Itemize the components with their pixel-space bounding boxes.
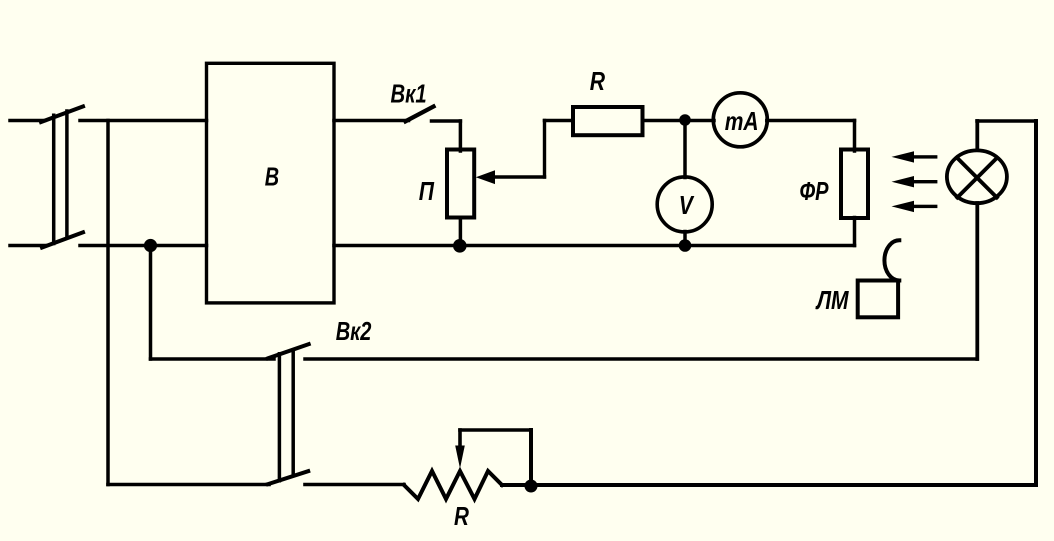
svg-text:B: B xyxy=(265,162,279,191)
svg-text:П: П xyxy=(419,177,435,205)
svg-text:Вк1: Вк1 xyxy=(391,79,427,108)
svg-text:ФР: ФР xyxy=(800,177,830,206)
svg-text:R: R xyxy=(454,502,469,531)
svg-text:R: R xyxy=(590,67,605,95)
svg-text:V: V xyxy=(679,191,695,219)
svg-text:Вк2: Вк2 xyxy=(336,317,372,346)
svg-text:mA: mA xyxy=(725,107,759,135)
svg-text:ЛМ: ЛМ xyxy=(815,286,849,314)
